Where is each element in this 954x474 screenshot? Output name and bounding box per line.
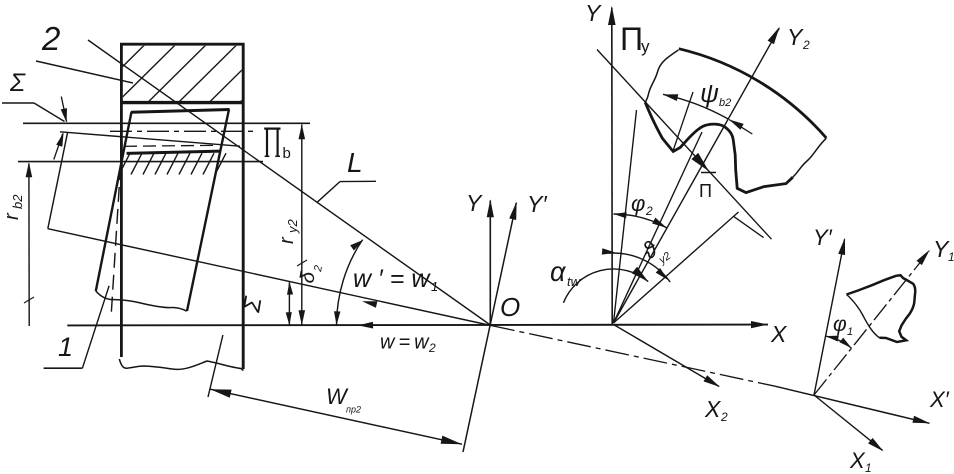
svg-text:1: 1 [847,326,853,338]
svg-text:b2: b2 [719,97,731,109]
svg-text:b2: b2 [10,194,25,209]
svg-text:w=w: w=w [380,332,433,354]
svg-text:L: L [347,147,363,178]
svg-text:2: 2 [428,341,436,355]
svg-text:у: у [641,37,650,56]
svg-text:Π: Π [699,181,712,201]
svg-text:φ: φ [631,191,645,216]
svg-text:X: X [770,321,788,347]
svg-text:1: 1 [58,332,73,362]
svg-text:y2: y2 [285,219,300,235]
svg-text:2: 2 [645,204,653,218]
svg-text:1: 1 [865,461,872,474]
svg-text:tw: tw [567,274,582,289]
svg-text:2: 2 [720,410,728,424]
svg-text:Y′: Y′ [813,225,833,250]
svg-text:w′=w: w′=w [353,265,436,293]
svg-text:1: 1 [431,279,438,294]
svg-text:ψ: ψ [700,78,719,108]
svg-text:Y: Y [466,190,483,216]
svg-text:O: O [500,292,520,322]
svg-text:Π: Π [620,21,643,57]
svg-text:1: 1 [948,250,954,264]
svg-text:Y: Y [585,0,602,26]
svg-text:Σ: Σ [9,69,26,97]
svg-text:X: X [704,396,722,422]
svg-text:α: α [550,257,567,287]
svg-text:X′: X′ [929,387,950,412]
svg-text:b: b [283,145,291,162]
svg-text:φ: φ [833,313,847,336]
svg-text:Y′: Y′ [527,191,547,217]
svg-text:2: 2 [802,38,810,52]
svg-text:пр2: пр2 [346,405,361,415]
svg-text:X: X [849,448,866,473]
svg-text:2: 2 [41,20,60,57]
svg-text:Y: Y [787,24,804,50]
